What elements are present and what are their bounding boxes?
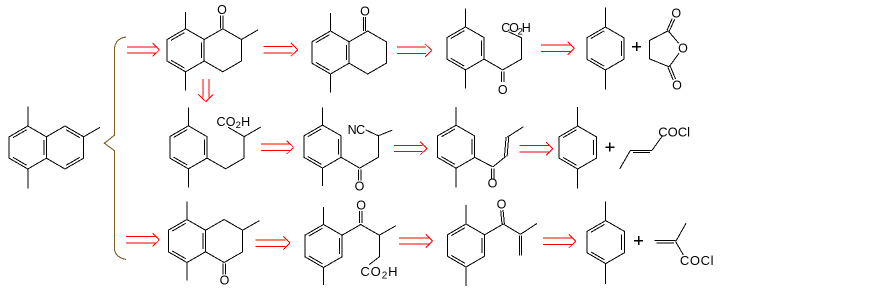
structure B2 ketone C=O xyxy=(355,170,365,194)
methacryloyl chloride C=CH2 xyxy=(655,241,676,243)
structure A3 methyl (bottom) xyxy=(465,70,467,89)
retro arrow row3 C1->C2 xyxy=(256,237,291,250)
plus sign row1 xyxy=(632,42,641,51)
structure B3 bond CO-CH xyxy=(493,156,506,167)
structure A2 aromatic ring xyxy=(312,31,349,74)
structure B1 chain Ar-CH2-CH2-CH xyxy=(207,137,244,169)
structure C3 methyl on vinyl xyxy=(521,224,538,235)
crotonyl chloride CH3-CH xyxy=(620,150,631,169)
structure B2 bond to NC xyxy=(366,130,379,136)
retro arrow row1 A3->products xyxy=(541,42,575,55)
plus sign row3 xyxy=(634,236,643,245)
target molecule: methyl C6 (right) xyxy=(84,127,101,137)
structure A3 ketone C=O xyxy=(498,72,508,98)
structure B1 bond to CO2H xyxy=(228,127,244,136)
structure A2 saturated ring xyxy=(349,31,386,74)
target molecule: methyl C1 (top) xyxy=(27,107,29,126)
target molecule: methyl C4 (bottom) xyxy=(27,169,29,188)
structure C3 methylene C=CH2 xyxy=(519,235,521,255)
structure A2 carbonyl C1=O xyxy=(360,5,370,31)
structure A1 methyl C2 xyxy=(241,30,258,40)
svg-text:COCl: COCl xyxy=(658,124,690,139)
svg-text:O: O xyxy=(220,274,230,288)
p-xylene row2 methyl top xyxy=(577,107,579,126)
crotonyl chloride bond to COCl xyxy=(652,136,663,151)
structure C1 aromatic ring xyxy=(168,220,205,263)
structure C2 methyl top xyxy=(323,207,325,225)
structure C3 ketone C=O xyxy=(497,198,507,225)
p-xylene row3 methyl bottom xyxy=(605,264,607,284)
structure C2 aromatic ring xyxy=(305,225,342,268)
structure B2 methyl bottom xyxy=(322,168,324,186)
svg-text:O: O xyxy=(356,198,366,212)
structure B3 ketone C=O xyxy=(488,169,498,191)
retro arrow row2 B1->B2 xyxy=(261,141,294,154)
svg-text:CO2H: CO2H xyxy=(217,115,251,131)
brace (left, olive-brown) xyxy=(104,37,126,259)
structure A3 bond to CO2H xyxy=(509,32,522,38)
retro arrow row3 C3->products xyxy=(543,235,576,248)
svg-text:CO2H: CO2H xyxy=(360,264,398,281)
svg-text:O: O xyxy=(672,78,682,92)
structure A3 methyl (top) xyxy=(465,9,467,27)
structure B1 methyl top xyxy=(187,107,189,126)
structure C3 aromatic ring xyxy=(447,224,484,267)
svg-text:O: O xyxy=(488,177,498,191)
retro arrow row2 B3->products xyxy=(520,142,553,155)
methacryloyl chloride COCl label xyxy=(680,253,714,268)
structure A3 CO2H label xyxy=(501,21,530,37)
crotonyl chloride C=C xyxy=(630,150,652,152)
structure B2 NC label xyxy=(348,123,366,137)
structure B2 methyl top xyxy=(322,107,324,125)
structure B3 methyl bottom xyxy=(455,168,457,187)
svg-text:O: O xyxy=(355,179,365,193)
structure B3 methyl top xyxy=(455,107,457,125)
structure B2 methyl on CH xyxy=(378,130,392,136)
crotonyl chloride COCl label xyxy=(658,124,690,139)
p-xylene row2 methyl bottom xyxy=(577,169,579,188)
retro arrow row3 C2->C3 xyxy=(399,235,433,248)
p-xylene row3 ring xyxy=(587,221,624,264)
structure B3 bond Ar-CO xyxy=(475,157,493,167)
structure B1 aromatic ring xyxy=(170,126,207,169)
retro arrow row1 A1->A2 xyxy=(263,43,297,56)
structure C3 bond Ar-CO xyxy=(485,224,504,235)
svg-text:NC: NC xyxy=(348,123,366,137)
structure A1 carbonyl C1=O xyxy=(217,3,227,29)
methacryloyl chloride bond to COCl xyxy=(676,242,684,255)
p-xylene row1 methyl top xyxy=(604,8,606,28)
p-xylene row1 methyl bottom xyxy=(604,70,606,90)
structure A1 saturated ring xyxy=(204,29,241,72)
p-xylene row1 ring xyxy=(587,27,624,70)
structure B1 methyl on CH xyxy=(244,127,261,137)
structure C1 carbonyl C1=O xyxy=(220,264,230,288)
structure C1 methyl C8 bottom xyxy=(186,263,188,281)
structure A3 chain Ar-CO-CH2-CH2 xyxy=(484,38,521,70)
svg-text:O: O xyxy=(497,198,507,212)
target molecule 1,4,6-trimethylnaphthalene: left aromatic ring xyxy=(9,126,46,169)
svg-text:O: O xyxy=(498,83,508,97)
succinic anhydride top C=O xyxy=(667,7,681,32)
structure B2 chain Ar-CO-CH2-CH xyxy=(341,136,378,168)
svg-text:O: O xyxy=(360,5,370,19)
structure A2 methyl C8 xyxy=(330,13,332,31)
structure C2 CO2H label xyxy=(360,264,398,281)
retro arrow row3 brace->C1 xyxy=(126,233,159,246)
structure A1 methyl C8 xyxy=(185,12,187,29)
retro arrow row2 B2->B3 xyxy=(394,142,427,155)
structure B1 CO2H label xyxy=(217,115,251,131)
structure B3 vinyl C=C xyxy=(505,137,509,157)
structure C2 bond to CO2H xyxy=(369,257,379,265)
structure B1 methyl bottom xyxy=(187,169,189,188)
structure A1 aromatic ring xyxy=(167,29,204,72)
plus sign row2 xyxy=(605,143,614,152)
methacryloyl chloride methyl xyxy=(676,223,687,242)
structure C2 methyl on CH xyxy=(379,226,396,236)
retro arrow row1 A2->A3 xyxy=(397,44,432,57)
succinic anhydride bottom C=O xyxy=(668,66,682,92)
structure C1 methyl C3 xyxy=(243,221,260,231)
structure A2 methyl C5 xyxy=(330,74,332,92)
p-xylene row2 ring xyxy=(559,126,596,169)
structure C2 methyl bottom xyxy=(323,268,325,286)
structure A1 methyl C5 xyxy=(185,72,187,91)
structure C3 bond CO-C xyxy=(503,224,520,234)
structure A3 aromatic ring xyxy=(447,27,484,70)
structure B3 methyl on vinyl xyxy=(507,127,523,137)
retro arrow row1 brace->A1 xyxy=(127,43,159,56)
p-xylene row3 methyl top xyxy=(605,202,607,221)
structure B3 aromatic ring xyxy=(438,125,475,168)
svg-text:O: O xyxy=(671,7,681,21)
svg-text:O: O xyxy=(217,3,227,17)
structure B2 aromatic ring xyxy=(304,125,341,168)
structure C3 methyl bottom xyxy=(465,267,467,286)
svg-text:O: O xyxy=(678,42,688,56)
succinic anhydride ring xyxy=(650,31,689,67)
structure C3 methyl top xyxy=(465,205,467,224)
svg-text:COCl: COCl xyxy=(680,253,714,268)
structure C1 saturated ring xyxy=(206,220,243,263)
structure C2 chain Ar-CO-CH-CH2 xyxy=(342,225,379,257)
retro arrow down A1->B1 xyxy=(198,79,213,102)
svg-text:CO2H: CO2H xyxy=(501,21,530,37)
structure C2 ketone C=O xyxy=(356,198,366,223)
target molecule: right aromatic ring xyxy=(46,126,83,169)
structure C1 methyl C5 top xyxy=(186,202,188,220)
